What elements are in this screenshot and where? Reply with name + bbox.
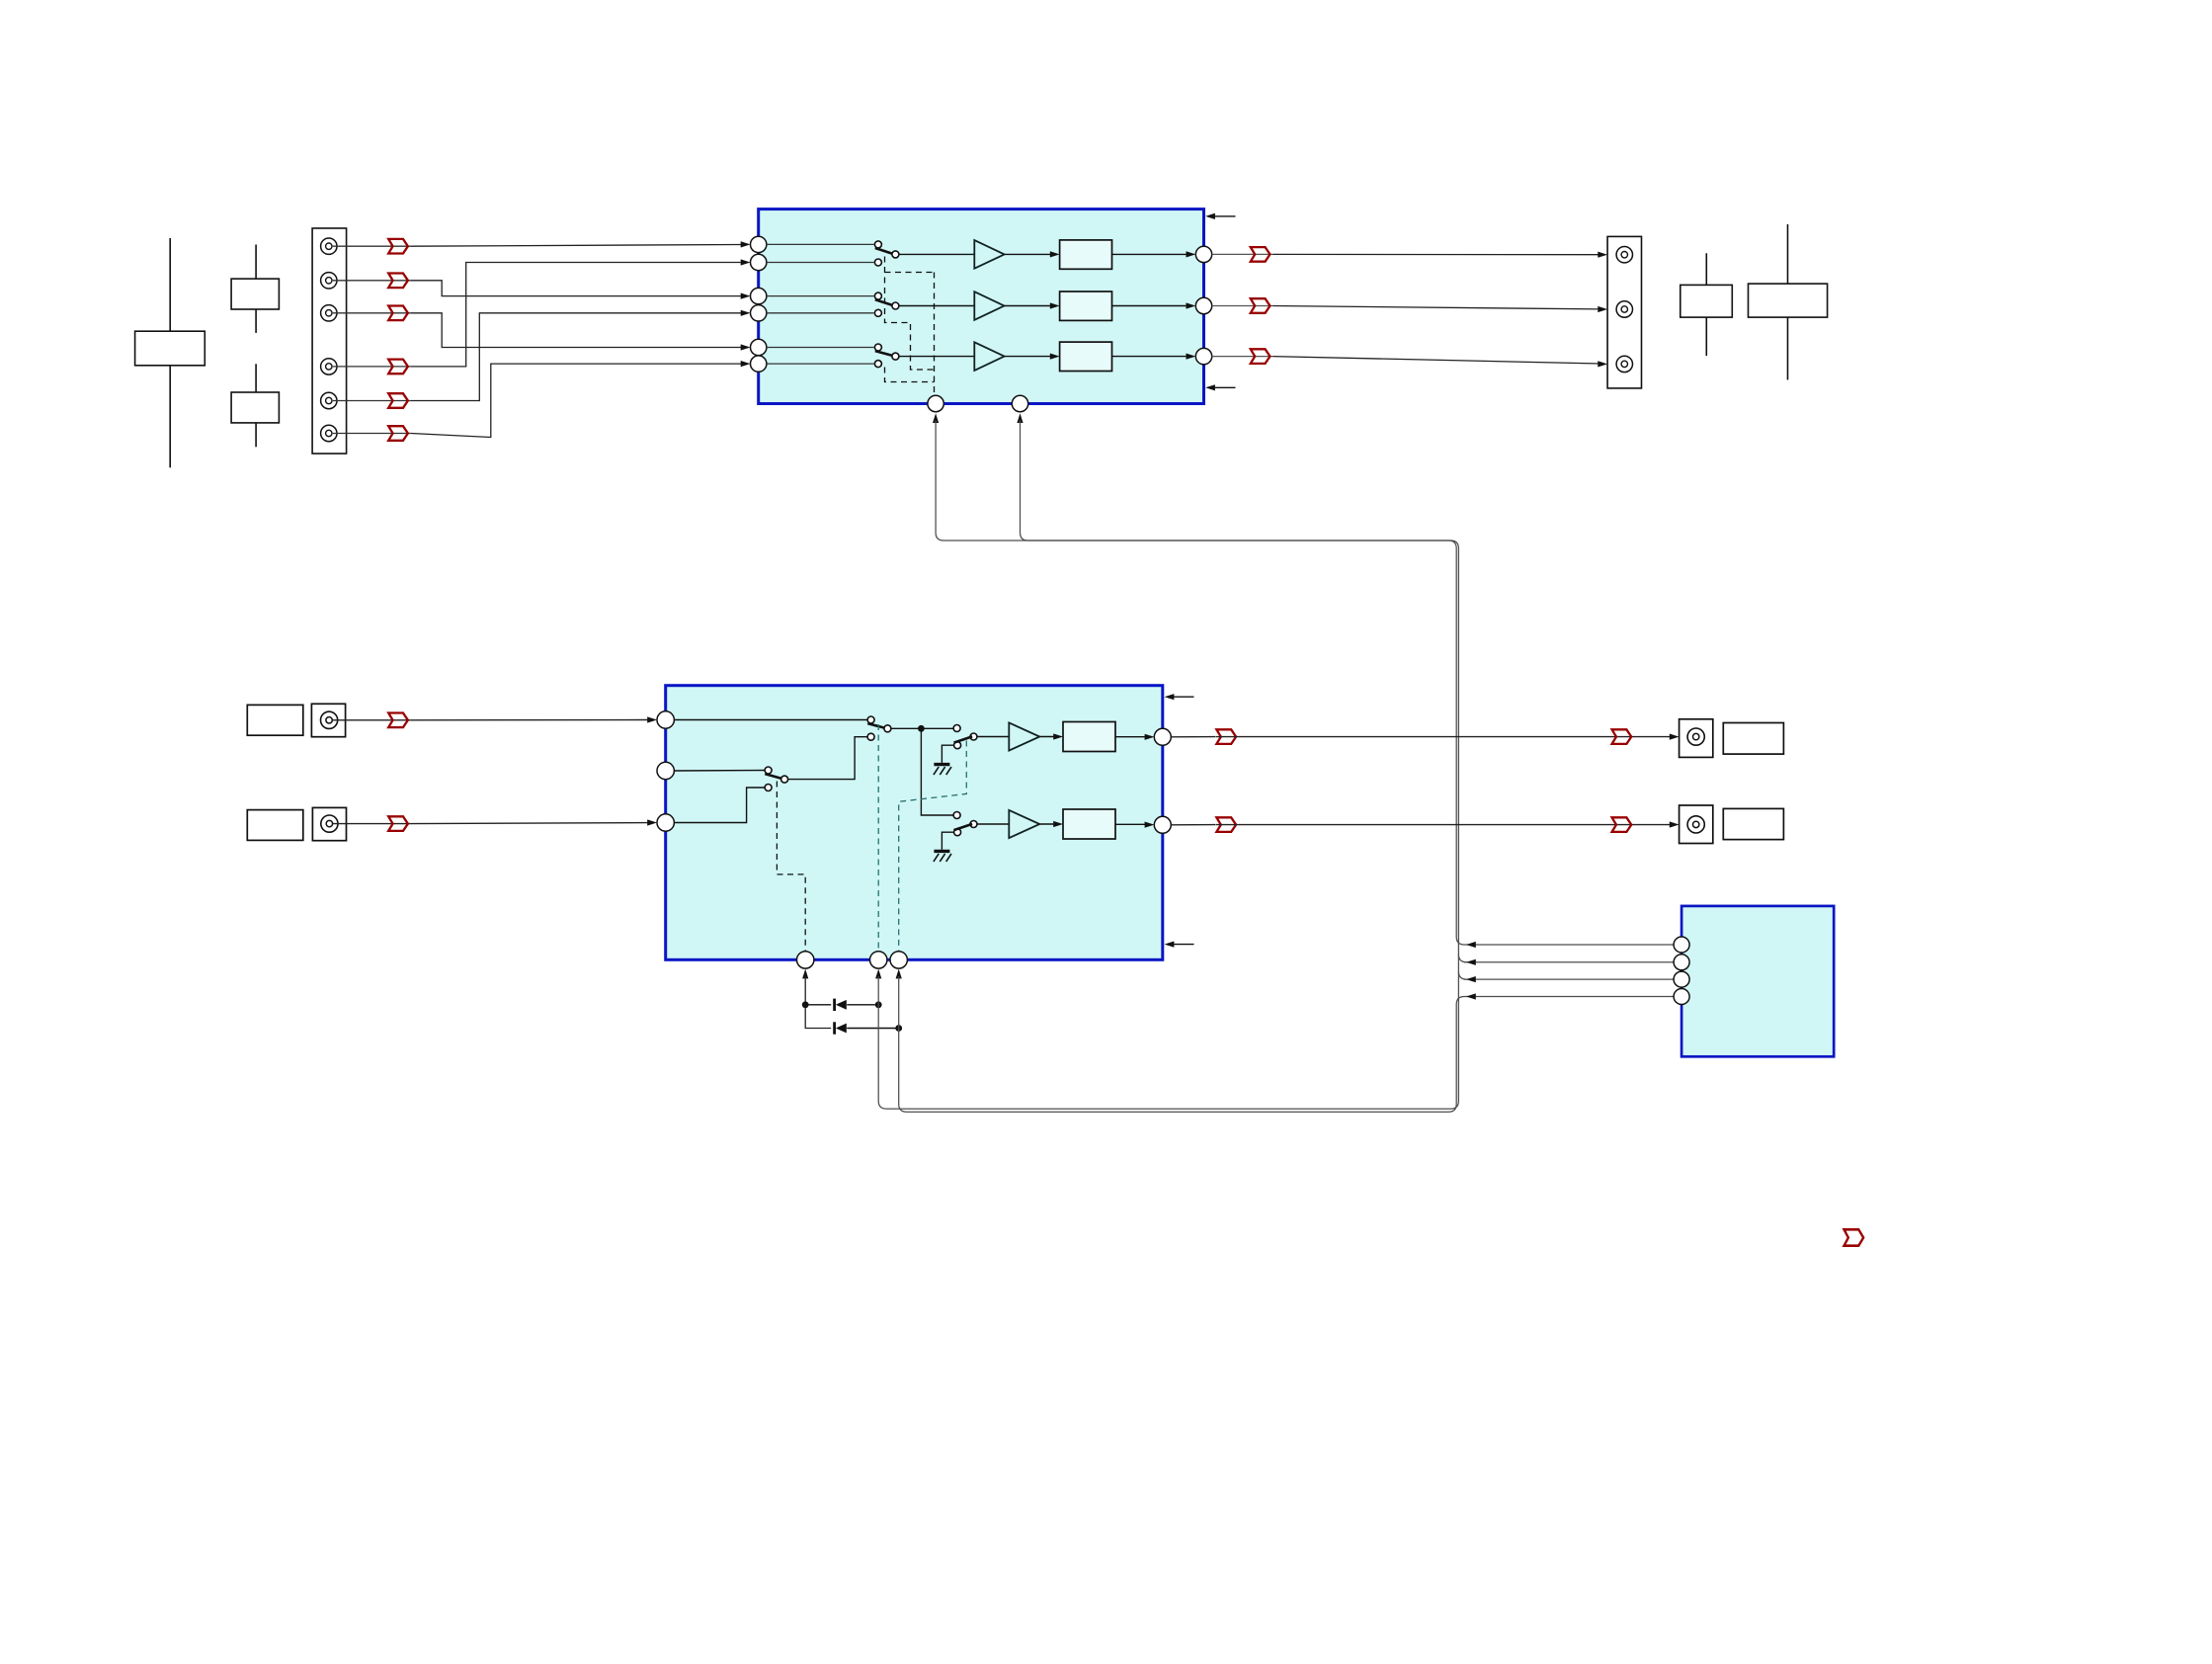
flow arrow E1 — [1216, 729, 1236, 744]
junction dot CR2/bus3 — [895, 1025, 902, 1032]
wire AMP2 to FL2 — [1005, 305, 1054, 307]
jack CN1-6 — [321, 425, 337, 441]
wire S7 pole to AMP5 — [977, 823, 1009, 825]
arrowhead into U1 pin5 — [741, 344, 751, 350]
control stub arrow bottom right of U1 — [1211, 386, 1236, 388]
U1 control pin C1 — [928, 395, 943, 411]
wire U2 pin3 to S5 throw B — [674, 788, 764, 823]
arrowhead on MCU row1 stub — [1466, 942, 1476, 948]
label box M1 — [247, 705, 302, 735]
jack box M1 — [311, 704, 345, 736]
arrowhead into CN2-1 — [1598, 252, 1607, 258]
arrowhead into FL2 — [1050, 302, 1060, 308]
wire jack M1 to arrow — [333, 719, 411, 721]
tape deck box T1 — [135, 331, 205, 366]
U1 pin1 circle — [751, 236, 767, 252]
wire U2 pin2 to S5 throw A — [674, 770, 764, 773]
component lead T2a bottom — [255, 309, 257, 333]
device lead R1 top — [1705, 253, 1707, 285]
filter FL4 — [1063, 722, 1115, 752]
flow arrow C2 — [388, 816, 408, 831]
switch S6 (mute L) — [953, 725, 977, 749]
wire below D1 — [805, 976, 831, 1029]
U2 pin1 circle — [657, 711, 674, 728]
component box T2b — [231, 392, 279, 423]
jack N2 — [1687, 816, 1704, 833]
arrowhead into FL3 — [1050, 354, 1060, 360]
flow arrow F1 — [1612, 729, 1632, 744]
arrowhead into U1 pin3 — [741, 293, 751, 299]
wire B1 to CN2-1 — [1272, 253, 1599, 255]
label box M2 — [247, 810, 302, 841]
wire S6 pole to AMP4 — [977, 736, 1009, 738]
junction node J1 — [918, 725, 925, 732]
wire U2 out1 to arrow — [1171, 736, 1215, 738]
wire FL5 to U2 out2 — [1115, 823, 1147, 825]
device lead R2 top — [1787, 224, 1789, 284]
up arrow into D2 — [875, 969, 881, 979]
flow arrow A1 — [388, 239, 408, 254]
device box R1 — [1680, 285, 1733, 317]
bus hook to MCU row3 — [1458, 971, 1466, 979]
U1 out2 circle — [1195, 297, 1211, 313]
wire FL1 to U1 out1 — [1112, 253, 1189, 255]
U1 pin6 circle — [751, 356, 767, 372]
wire S7 lower throw to ground — [942, 832, 953, 850]
flow arrow A2 — [388, 274, 408, 289]
jack CN1-5 — [321, 392, 337, 408]
amplifier AMP3 — [974, 342, 1004, 371]
flow arrow A4 — [388, 360, 408, 374]
wire S4 pole to junction — [891, 727, 922, 729]
input connector CN1 — [312, 228, 347, 454]
U1 control pin C2 — [1012, 395, 1027, 411]
wire FL4 to U2 out1 — [1115, 736, 1147, 738]
filter FL5 — [1063, 809, 1115, 839]
arrowhead into jack N1 — [1670, 734, 1679, 740]
jack M2 — [321, 815, 338, 832]
wire U1 pin4 to S2 throw B — [767, 312, 874, 314]
flow arrow A3 — [388, 306, 408, 321]
gang dashed link S1-S3 — [885, 257, 935, 395]
arrowhead into U1 out1 — [1187, 251, 1196, 257]
wire U1 out3 to arrow — [1212, 356, 1273, 358]
arrowhead into FL4 — [1053, 733, 1063, 739]
IC block U2 (rec out selector) — [666, 686, 1163, 960]
wire U1 pin1 to S1 throw A — [767, 243, 874, 245]
device box R2 — [1749, 284, 1828, 317]
wire U1 pin5 to S3 throw A — [767, 347, 874, 349]
wire A6 to U1 pin6 — [411, 364, 742, 437]
ground G1 — [934, 765, 951, 776]
filter FL3 — [1060, 342, 1112, 371]
amplifier AMP5 — [1009, 810, 1039, 838]
U1 pin4 circle — [751, 305, 767, 321]
MCU row3 stub wire — [1464, 978, 1674, 980]
wire B3 to CN2-3 — [1272, 357, 1599, 364]
wire CN1-2 to arrow — [333, 280, 411, 282]
wire CR2 to vertical bus 3 — [847, 1028, 899, 1030]
up arrow into D3 — [896, 969, 902, 979]
arrowhead into FL5 — [1053, 821, 1063, 827]
U1 out3 circle — [1195, 348, 1211, 364]
control wire D3 to MCU pin4 — [899, 976, 1674, 1112]
wire AMP4 to FL4 — [1039, 736, 1057, 738]
control bus U1-C1 to U2-D2 — [878, 421, 1458, 1110]
U3 pin3 circle — [1674, 971, 1689, 987]
tape deck symbol line T1 — [169, 238, 171, 467]
wire S6 lower throw to ground — [942, 745, 953, 763]
control stub arrow top right of U1 — [1211, 215, 1236, 217]
control stub arrow bottom right of U2 — [1171, 944, 1194, 946]
wire F1 to jack N1 — [1634, 736, 1672, 738]
arrowhead into jack N2 — [1670, 821, 1679, 827]
arrowhead into U1 out2 — [1187, 302, 1196, 308]
switch S1 — [874, 241, 899, 266]
wire CN1-3 to arrow — [333, 312, 411, 314]
wire A2 to U1 pin3 — [411, 281, 742, 296]
filter FL2 — [1060, 291, 1112, 320]
switch S2 — [874, 292, 899, 316]
wire S1 pole to amp1 — [899, 253, 974, 255]
filter FL1 — [1060, 240, 1112, 269]
amplifier AMP4 — [1009, 722, 1039, 750]
wire FL2 to U1 out2 — [1112, 305, 1189, 307]
flow arrow B2 — [1251, 298, 1270, 313]
label box N2 — [1723, 808, 1783, 839]
component lead T2 upper — [255, 245, 257, 280]
switch S7 (mute R) — [953, 812, 977, 836]
flow arrow B3 — [1251, 349, 1270, 364]
jack box M2 — [312, 807, 346, 840]
wire E2 to arrow F2 — [1216, 824, 1634, 826]
jack M1 — [321, 711, 338, 728]
jack N1 — [1687, 728, 1704, 745]
jack box N1 — [1679, 719, 1713, 758]
diode CR2 — [835, 1022, 847, 1034]
up arrow into U1 ctrl C1 — [933, 413, 939, 423]
arrowhead into CN2-3 — [1598, 361, 1607, 367]
flow arrow A6 — [388, 426, 408, 441]
jack CN1-3 — [321, 305, 337, 321]
wire AMP5 to FL5 — [1039, 823, 1057, 825]
dashed gang link S6 to U2 ctrl3 — [899, 741, 967, 952]
flow arrow E2 — [1216, 817, 1236, 832]
flow arrow F2 — [1612, 817, 1632, 832]
U2 pin2 circle — [657, 762, 674, 779]
wire U2 out2 to arrow — [1171, 824, 1215, 826]
wire C2 to U2 pin3 — [411, 823, 649, 824]
U2 out2 circle — [1154, 816, 1171, 833]
wire S2 pole to amp2 — [899, 305, 974, 307]
wire FL3 to U1 out3 — [1112, 356, 1189, 358]
U1 pin5 circle — [751, 339, 767, 355]
output connector CN2 — [1607, 236, 1641, 388]
switch S5 — [765, 767, 788, 791]
arrowhead into U2 pin3 — [647, 819, 657, 825]
junction dot on D1 line — [802, 1001, 809, 1008]
flow arrow A5 — [388, 393, 408, 408]
jack CN2-3 — [1616, 356, 1632, 372]
arrowhead on MCU row2 stub — [1466, 959, 1476, 965]
ground G2 — [934, 851, 951, 862]
arrowhead into U1 out3 — [1187, 354, 1196, 360]
jack CN2-2 — [1616, 301, 1632, 317]
dashed gang link S4 to U2 ctrl2 — [877, 724, 879, 951]
wire U1 pin2 to S1 throw B — [767, 262, 874, 264]
wire C1 to U2 pin1 — [411, 719, 649, 721]
wire B2 to CN2-2 — [1272, 306, 1599, 309]
U2 control pin circle D2 — [870, 952, 887, 968]
wire E1 to arrow F1 — [1216, 736, 1634, 738]
wire U1 pin3 to S2 throw A — [767, 295, 874, 297]
U3 pin4 circle — [1674, 989, 1689, 1005]
up arrow into D1 — [802, 969, 808, 979]
component box T2a — [231, 279, 279, 309]
U1 out1 circle — [1195, 246, 1211, 262]
wire D1 line to diode CR1 — [805, 1004, 831, 1006]
device lead R1 bottom — [1705, 317, 1707, 356]
U2 control pin circle D1 — [797, 952, 814, 968]
switch S3 — [874, 344, 899, 368]
wire U1 out2 to arrow — [1212, 305, 1273, 307]
up arrow into U1 ctrl C2 — [1017, 413, 1023, 423]
U3 pin2 circle — [1674, 955, 1689, 970]
wire CN1-6 to arrow — [333, 433, 411, 435]
junction dot CR1/bus2 — [875, 1001, 882, 1008]
wire CR1 to vertical bus 2 — [847, 1004, 878, 1006]
switch S4 — [867, 716, 891, 740]
arrowhead into U2 out2 — [1145, 822, 1155, 828]
arrowhead into U1 pin4 — [741, 310, 751, 316]
arrowhead into U1 pin2 — [741, 259, 751, 265]
U3 pin1 circle — [1674, 937, 1689, 953]
arrowhead on MCU row3 stub — [1466, 976, 1476, 982]
wire U2 pin1 to S4 throw A — [674, 719, 873, 721]
U2 out1 circle — [1154, 728, 1171, 745]
U2 pin3 circle — [657, 814, 674, 831]
isolated flow arrow G1 — [1844, 1229, 1864, 1245]
arrowhead into CN2-2 — [1598, 306, 1607, 312]
flow arrow C1 — [388, 713, 408, 728]
control wire U1-C2 to MCU pin1 — [1021, 421, 1674, 946]
jack CN1-4 — [321, 359, 337, 374]
wire A5 to U1 pin4 — [411, 313, 742, 401]
flow arrow B1 — [1251, 247, 1270, 262]
amplifier AMP2 — [974, 291, 1004, 320]
U1 pin2 circle — [751, 254, 767, 270]
wire CN1-1 to arrow — [333, 245, 411, 247]
wire CN1-5 to arrow — [333, 400, 411, 402]
IC block U1 (input selector / amp) — [759, 209, 1204, 404]
component lead T2b bottom — [255, 423, 257, 447]
wire U1 pin6 to S3 throw B — [767, 363, 874, 365]
arrowhead into U2 out1 — [1145, 734, 1155, 740]
arrowhead on MCU row4 stub — [1466, 993, 1476, 999]
MCU block U3 (system control) — [1681, 906, 1834, 1056]
component lead T2b top — [255, 364, 257, 392]
arrowhead into U1 pin1 — [741, 241, 751, 247]
wire A1 to U1 pin1 — [411, 245, 742, 247]
jack CN1-1 — [321, 238, 337, 254]
wire AMP1 to FL1 — [1005, 253, 1054, 255]
amplifier AMP1 — [974, 240, 1004, 269]
wire AMP3 to FL3 — [1005, 356, 1054, 358]
wire S5 pole to S4 throw B — [788, 737, 867, 780]
jack CN2-1 — [1616, 247, 1632, 263]
wire F2 to jack N2 — [1634, 824, 1672, 826]
dashed gang link S5 to U2 ctrl1 — [777, 782, 805, 952]
diode CR1 — [835, 999, 847, 1011]
arrowhead into FL1 — [1050, 251, 1060, 257]
arrowhead into U1 pin6 — [741, 361, 751, 367]
bus hook to MCU row2 — [1458, 955, 1466, 962]
wire A4 to U1 pin2 — [411, 263, 742, 367]
jack CN1-2 — [321, 273, 337, 289]
wire junction down to S7 throw A — [921, 728, 953, 815]
device lead R2 bottom — [1787, 317, 1789, 379]
wire A3 to U1 pin5 — [411, 313, 742, 348]
wire junction to S6 throw A — [921, 727, 953, 729]
wire CN1-4 to arrow — [333, 366, 411, 368]
control stub arrow top right of U2 — [1171, 696, 1194, 698]
U2 control pin circle D3 — [890, 952, 907, 968]
U1 pin3 circle — [751, 288, 767, 303]
wire jack M2 to arrow — [333, 823, 411, 825]
wire U1 out1 to arrow — [1212, 253, 1273, 255]
jack box N2 — [1679, 805, 1713, 844]
wire S3 pole to amp3 — [899, 356, 974, 358]
label box N1 — [1723, 723, 1783, 755]
MCU row2 stub wire — [1464, 961, 1674, 963]
arrowhead into U2 pin1 — [647, 716, 657, 722]
